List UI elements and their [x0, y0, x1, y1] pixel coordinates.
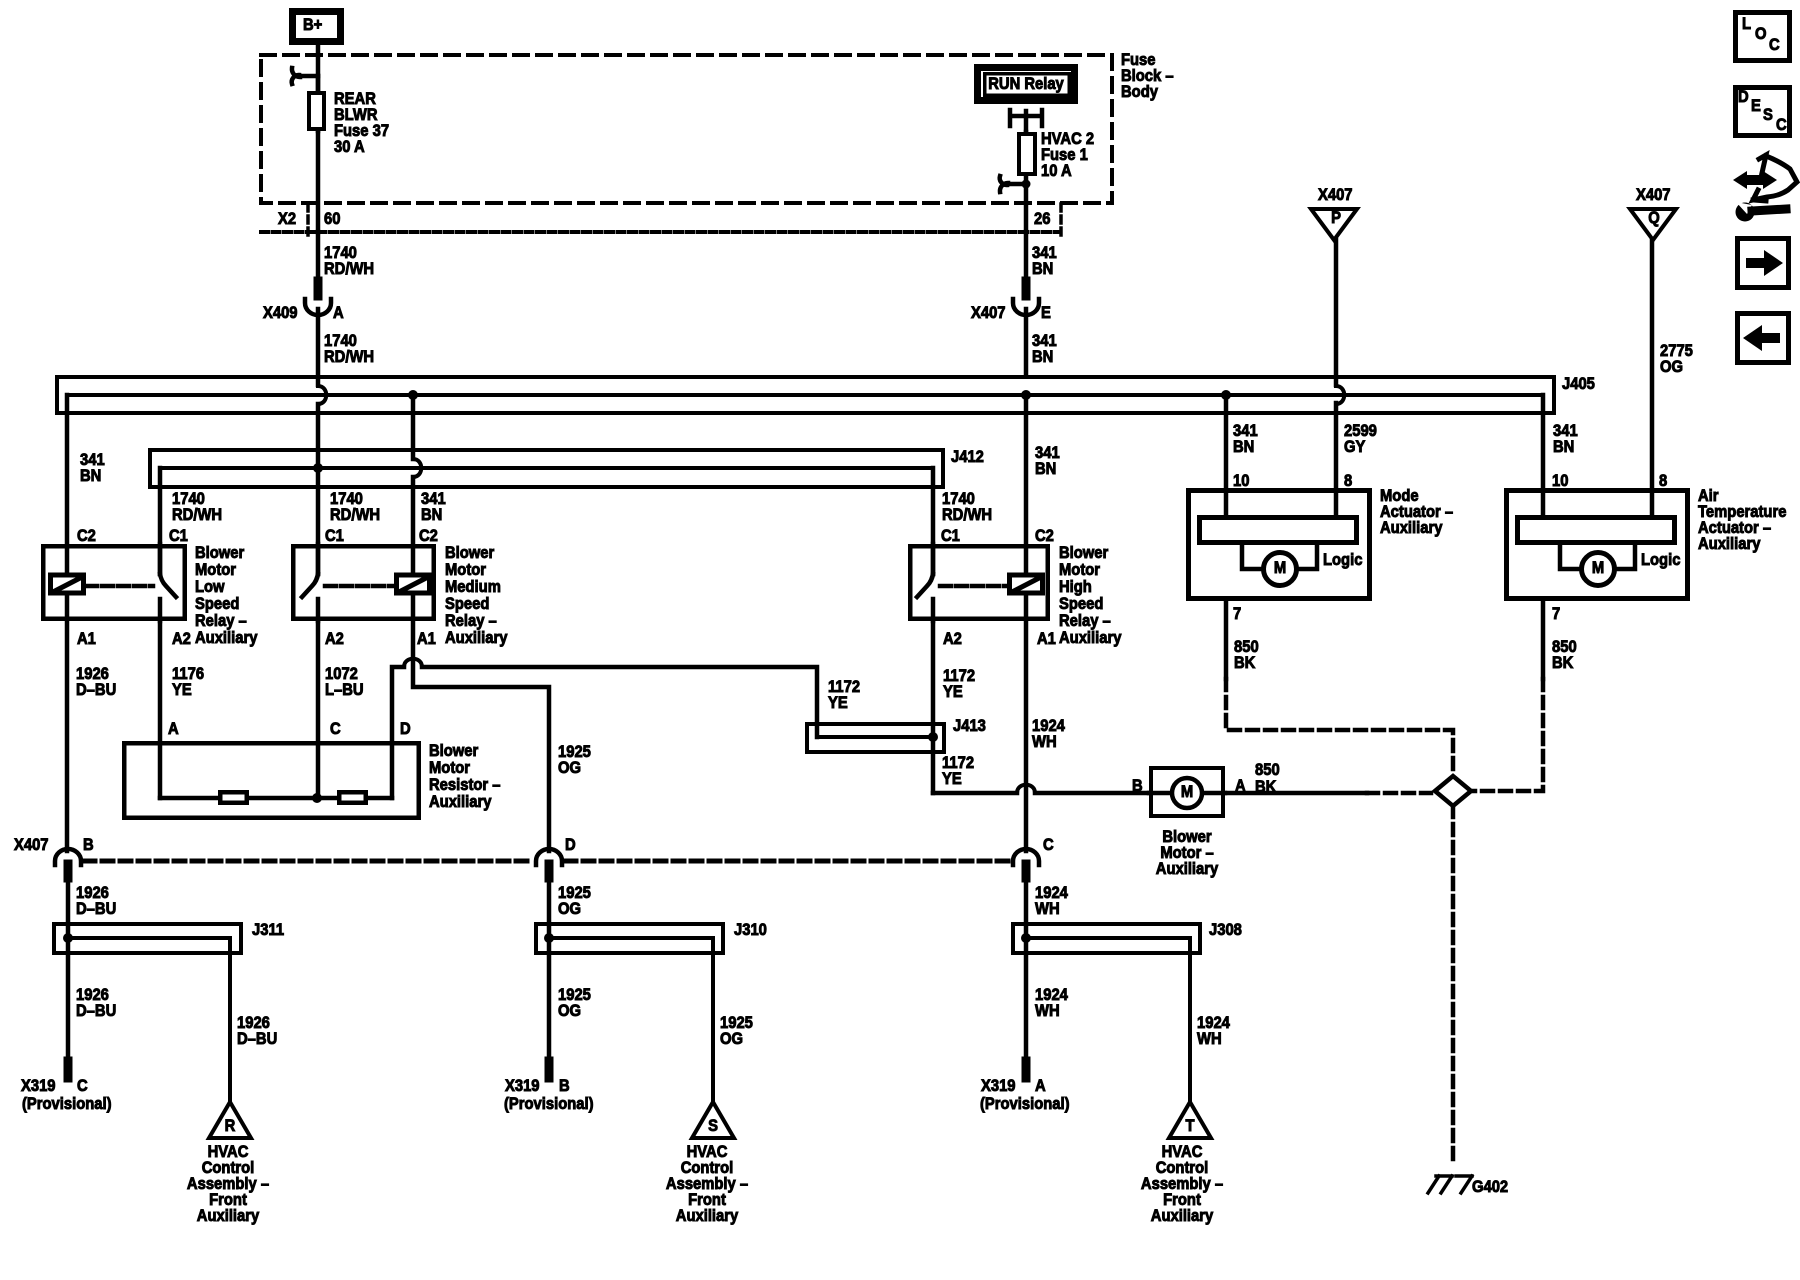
svg-text:(Provisional): (Provisional)	[504, 1095, 594, 1113]
svg-text:E: E	[1751, 97, 1761, 115]
svg-text:A1: A1	[417, 630, 436, 648]
svg-text:Logic: Logic	[1323, 551, 1363, 569]
svg-text:WH: WH	[1032, 733, 1057, 751]
HVAC control triangle T	[1169, 1102, 1211, 1138]
wire 1925 OG labels at J310	[558, 884, 753, 1048]
svg-text:S: S	[1763, 106, 1773, 124]
resistor element 2	[339, 792, 366, 803]
wire 341 BN to X407 E	[1026, 232, 1057, 281]
svg-text:C1: C1	[941, 527, 960, 545]
svg-text:10 A: 10 A	[1041, 162, 1072, 180]
svg-text:YE: YE	[942, 770, 962, 788]
wire 1926 D-BU low relay A1 to X407 B	[67, 593, 116, 851]
svg-text:M: M	[1274, 559, 1286, 577]
junction block J308	[1013, 878, 1242, 1102]
wire 341 BN tap to medium relay C2	[408, 390, 446, 575]
wire 341 BN J405 tap to mode actuator pin 10	[1221, 390, 1258, 517]
connector X2 boundary (dotted)	[261, 230, 1060, 234]
wire 1740 RD/WH to X409	[318, 232, 374, 281]
svg-text:BN: BN	[80, 467, 101, 485]
splice diamond	[1435, 776, 1471, 806]
svg-text:Auxiliary: Auxiliary	[676, 1207, 739, 1225]
junction block J405	[57, 375, 1595, 413]
fuse block - body dashed outline	[261, 55, 1112, 203]
svg-text:Logic: Logic	[1641, 551, 1681, 569]
svg-text:26: 26	[1034, 210, 1051, 228]
icon DESC	[1736, 88, 1790, 136]
svg-text:Auxiliary: Auxiliary	[445, 629, 508, 647]
X407 pin D	[536, 836, 576, 878]
svg-text:Blower: Blower	[195, 544, 244, 562]
svg-text:BN: BN	[421, 506, 442, 524]
wire to ground G402	[1451, 806, 1456, 1163]
wire 1740 RD/WH X409 to J405	[318, 309, 374, 385]
RUN relay terminals	[1010, 110, 1042, 132]
svg-text:WH: WH	[1035, 900, 1060, 918]
svg-text:J412: J412	[951, 448, 984, 466]
air temp actuator pin 8 label	[1659, 472, 1667, 490]
svg-text:B+: B+	[303, 16, 322, 34]
wire 341 BN J405 to high relay C2	[1021, 390, 1060, 575]
wire 1172 YE high relay A2 through J413	[928, 621, 975, 793]
svg-text:C2: C2	[419, 527, 438, 545]
svg-text:X407: X407	[1636, 186, 1671, 204]
motor title	[1156, 828, 1219, 878]
svg-text:C: C	[1776, 116, 1787, 134]
svg-text:Relay –: Relay –	[1059, 612, 1111, 630]
svg-text:Motor: Motor	[195, 561, 236, 579]
wire 341 BN J405 left drop to low relay C2	[67, 395, 105, 577]
svg-text:Auxiliary: Auxiliary	[1059, 629, 1122, 647]
svg-text:Speed: Speed	[445, 595, 489, 613]
connector X409 pin A	[263, 281, 344, 322]
icon LOC	[1736, 13, 1790, 61]
connector X319 pin B	[504, 1061, 594, 1113]
svg-text:BN: BN	[1553, 438, 1574, 456]
wire 850 BK air temp actuator pin 7	[1474, 601, 1577, 791]
svg-text:Relay –: Relay –	[195, 612, 247, 630]
svg-text:A: A	[168, 720, 179, 738]
junction block J311	[54, 878, 284, 1102]
svg-text:X407: X407	[14, 836, 49, 854]
svg-text:OG: OG	[558, 759, 581, 777]
wire 1740 RD/WH J412 right drop to high relay C1	[933, 468, 992, 574]
X2 pin separator right	[1059, 204, 1063, 238]
wire 1172 YE resistor D to J413	[392, 659, 860, 798]
svg-text:B: B	[1132, 777, 1143, 795]
svg-text:M: M	[1181, 783, 1193, 801]
svg-text:YE: YE	[828, 694, 848, 712]
connector X319 pin A	[980, 1061, 1070, 1113]
svg-text:Relay –: Relay –	[445, 612, 497, 630]
HVAC control assembly label (S)	[666, 1143, 748, 1225]
wire 1926 D-BU labels at J311	[76, 884, 277, 1048]
svg-text:C2: C2	[1035, 527, 1054, 545]
svg-text:RD/WH: RD/WH	[942, 506, 992, 524]
wire fuse 37 to X2 pin 60	[316, 131, 321, 232]
svg-text:A: A	[333, 304, 344, 322]
wire 2599 GY from P to mode actuator pin 8	[1336, 240, 1377, 516]
svg-text:BN: BN	[1035, 460, 1056, 478]
RUN Relay	[978, 68, 1075, 101]
svg-text:8: 8	[1659, 472, 1667, 490]
svg-text:Auxiliary: Auxiliary	[1151, 1207, 1214, 1225]
svg-text:RD/WH: RD/WH	[324, 260, 374, 278]
svg-text:Blower: Blower	[1059, 544, 1108, 562]
air temperature actuator - auxiliary	[1507, 487, 1787, 598]
svg-text:D: D	[565, 836, 576, 854]
svg-text:X2: X2	[278, 210, 296, 228]
svg-text:10: 10	[1233, 472, 1250, 490]
svg-text:A2: A2	[172, 630, 191, 648]
svg-text:Q: Q	[1648, 209, 1660, 227]
connector X407 Q (triangle)	[1630, 186, 1676, 240]
icon next (right arrow)	[1738, 239, 1789, 288]
fuse 37 top clip	[292, 68, 318, 84]
svg-text:BK: BK	[1255, 778, 1277, 796]
connector X407 P (triangle)	[1311, 186, 1357, 240]
svg-text:Auxiliary: Auxiliary	[1380, 519, 1443, 537]
svg-text:X407: X407	[1318, 186, 1353, 204]
svg-text:OG: OG	[558, 900, 581, 918]
svg-text:E: E	[1041, 304, 1051, 322]
mode actuator pin 8 label	[1344, 472, 1352, 490]
svg-text:Blower: Blower	[445, 544, 494, 562]
wire fuse 1 to X2 pin 26	[1024, 184, 1029, 232]
svg-text:D–BU: D–BU	[76, 681, 116, 699]
svg-text:Auxiliary: Auxiliary	[197, 1207, 260, 1225]
svg-text:D: D	[400, 720, 411, 738]
junction block J310	[536, 878, 767, 1102]
HVAC control assembly label (R)	[187, 1143, 269, 1225]
svg-text:D–BU: D–BU	[76, 900, 116, 918]
junction block J413	[807, 717, 986, 752]
fuse 1 bottom clip	[1000, 176, 1031, 192]
svg-text:B: B	[559, 1077, 570, 1095]
svg-text:Auxiliary: Auxiliary	[195, 629, 258, 647]
HVAC control assembly label (T)	[1141, 1143, 1223, 1225]
blower motor - auxiliary	[1132, 768, 1246, 816]
wire 1740 RD/WH J412 left drop to low relay C1	[160, 468, 222, 574]
HVAC control triangle S	[692, 1102, 734, 1138]
svg-text:A1: A1	[1037, 630, 1056, 648]
node: 1740 RD/WH joins J412, continues to medium relay C1	[313, 463, 380, 574]
high relay pin labels	[943, 630, 1056, 648]
svg-text:OG: OG	[720, 1030, 743, 1048]
X407 pin B	[55, 836, 94, 878]
svg-text:Auxiliary: Auxiliary	[429, 793, 492, 811]
HVAC control triangle R	[209, 1102, 251, 1138]
svg-text:RD/WH: RD/WH	[324, 348, 374, 366]
1740 RD/WH hop through J405	[318, 386, 326, 468]
svg-text:A2: A2	[943, 630, 962, 648]
svg-text:S: S	[708, 1117, 718, 1135]
svg-text:J308: J308	[1209, 921, 1242, 939]
icon previous (left arrow)	[1738, 314, 1789, 363]
svg-text:R: R	[225, 1117, 236, 1135]
svg-text:A2: A2	[325, 630, 344, 648]
svg-text:YE: YE	[172, 681, 192, 699]
svg-text:J310: J310	[734, 921, 767, 939]
battery feed B+	[293, 12, 341, 42]
wire 850-feed J413 to blower motor B	[933, 785, 1149, 793]
connector X319 pin C	[21, 1061, 112, 1113]
wire 1072 L-BU medium relay A2 to resistor C	[318, 621, 364, 798]
svg-text:60: 60	[324, 210, 341, 228]
low relay pin labels	[77, 630, 191, 648]
svg-text:X319: X319	[505, 1077, 540, 1095]
svg-text:C1: C1	[169, 527, 188, 545]
svg-text:P: P	[1331, 209, 1341, 227]
svg-text:7: 7	[1552, 605, 1560, 623]
svg-text:Speed: Speed	[1059, 595, 1103, 613]
svg-text:7: 7	[1233, 605, 1241, 623]
svg-text:D–BU: D–BU	[237, 1030, 277, 1048]
svg-text:OG: OG	[1660, 358, 1683, 376]
svg-text:X409: X409	[263, 304, 298, 322]
svg-text:X407: X407	[971, 304, 1006, 322]
svg-text:BN: BN	[1032, 348, 1053, 366]
svg-text:C2: C2	[77, 527, 96, 545]
svg-text:10: 10	[1552, 472, 1569, 490]
svg-text:L: L	[1742, 15, 1751, 33]
blower motor resistor - auxiliary	[124, 742, 500, 818]
svg-text:Body: Body	[1121, 83, 1158, 101]
svg-text:RUN Relay: RUN Relay	[988, 75, 1064, 93]
wire 2775 OG from Q to air temp actuator pin 8	[1652, 240, 1693, 517]
svg-text:C: C	[1043, 836, 1054, 854]
svg-text:X319: X319	[21, 1077, 56, 1095]
svg-text:B: B	[83, 836, 94, 854]
pin 26	[1034, 210, 1051, 228]
svg-text:O: O	[1755, 25, 1767, 43]
relay: Blower Motor Low Speed Relay - Auxiliary	[43, 544, 257, 647]
svg-text:Motor: Motor	[445, 561, 486, 579]
svg-text:D–BU: D–BU	[76, 1002, 116, 1020]
svg-text:GY: GY	[1344, 438, 1366, 456]
svg-text:BK: BK	[1552, 654, 1574, 672]
svg-text:WH: WH	[1197, 1030, 1222, 1048]
svg-text:WH: WH	[1035, 1002, 1060, 1020]
svg-text:C1: C1	[325, 527, 344, 545]
node resistor C junction	[312, 793, 322, 803]
medium relay pin labels	[325, 630, 436, 648]
wire 1924 WH high relay A1 to X407 C	[1026, 593, 1065, 851]
svg-text:8: 8	[1344, 472, 1352, 490]
ground G402	[1428, 1176, 1508, 1196]
svg-text:RD/WH: RD/WH	[330, 506, 380, 524]
svg-text:Motor: Motor	[1059, 561, 1100, 579]
svg-text:T: T	[1185, 1117, 1194, 1135]
label X2	[278, 210, 296, 228]
wire 850 BK mode actuator pin 7	[1226, 601, 1453, 774]
svg-text:Resistor –: Resistor –	[429, 776, 501, 794]
pin 60	[324, 210, 341, 228]
svg-text:D: D	[1738, 88, 1749, 106]
svg-text:Blower: Blower	[429, 742, 478, 760]
svg-text:J405: J405	[1562, 375, 1595, 393]
svg-text:Auxiliary: Auxiliary	[1156, 860, 1219, 878]
svg-text:OG: OG	[558, 1002, 581, 1020]
svg-text:BK: BK	[1234, 654, 1256, 672]
relay: Blower Motor Medium Speed Relay - Auxiliary	[293, 544, 507, 647]
mode actuator - auxiliary	[1189, 487, 1454, 598]
icon schematic-navigate (arrows and wrench)	[1733, 155, 1797, 222]
svg-text:C: C	[1769, 36, 1780, 54]
svg-text:Motor: Motor	[429, 759, 470, 777]
wire 1925 OG medium relay A1 to X407 D	[413, 593, 591, 851]
relay: Blower Motor High Speed Relay - Auxiliary	[910, 544, 1121, 647]
svg-text:G402: G402	[1472, 1178, 1508, 1196]
connector X407 in-line (dashed)	[14, 836, 1010, 861]
svg-text:(Provisional): (Provisional)	[980, 1095, 1070, 1113]
wire 850 BK motor A to splice	[1225, 761, 1431, 796]
svg-text:Auxiliary: Auxiliary	[1698, 535, 1761, 553]
svg-text:M: M	[1592, 559, 1604, 577]
X2 pin separator left	[306, 204, 310, 238]
fuse HVAC 2 Fuse 1 10A	[1019, 130, 1094, 184]
svg-text:BN: BN	[1032, 260, 1053, 278]
svg-text:Medium: Medium	[445, 578, 501, 596]
wire 341 BN X407-E to J405	[1026, 309, 1057, 375]
svg-text:Low: Low	[195, 578, 225, 596]
svg-text:A: A	[1035, 1077, 1046, 1095]
svg-text:30 A: 30 A	[334, 138, 365, 156]
svg-text:YE: YE	[943, 683, 963, 701]
resistor element 1	[220, 792, 247, 803]
svg-text:A1: A1	[77, 630, 96, 648]
svg-text:J413: J413	[953, 717, 986, 735]
svg-text:Speed: Speed	[195, 595, 239, 613]
svg-text:X319: X319	[981, 1077, 1016, 1095]
fuse block label	[1121, 51, 1174, 101]
wire 1176 YE low relay A2 to resistor A	[160, 621, 204, 798]
wire 341 BN J405 right end to air temp actuator pin 10	[1543, 395, 1578, 517]
svg-text:J311: J311	[252, 921, 284, 939]
junction block J412	[150, 448, 984, 487]
connector X407 pin E	[971, 281, 1051, 322]
wire 1924 WH labels at J308	[1035, 884, 1230, 1048]
X407 pin C	[1013, 836, 1054, 878]
svg-text:C: C	[77, 1077, 88, 1095]
svg-text:(Provisional): (Provisional)	[22, 1095, 112, 1113]
svg-text:BN: BN	[1233, 438, 1254, 456]
svg-text:L–BU: L–BU	[325, 681, 364, 699]
fuse REAR BLWR Fuse 37 30A	[309, 76, 389, 156]
svg-text:850: 850	[1255, 761, 1280, 779]
wire B+ to fuse 37	[316, 45, 321, 91]
svg-text:RD/WH: RD/WH	[172, 506, 222, 524]
svg-text:C: C	[330, 720, 341, 738]
svg-text:High: High	[1059, 578, 1092, 596]
